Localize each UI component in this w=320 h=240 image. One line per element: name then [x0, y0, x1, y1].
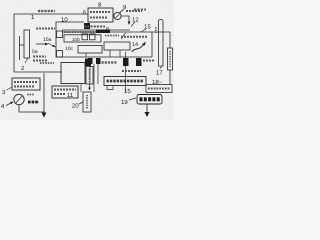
- leader 2: [25, 58, 28, 63]
- capacitor text row: [84, 25, 105, 27]
- capstan motor box 3: [12, 78, 40, 90]
- chassis name text: [38, 10, 55, 12]
- top right text: [134, 9, 146, 11]
- tape path line: [62, 31, 170, 33]
- phase box 20: [83, 92, 91, 112]
- wire down to connector: [169, 32, 171, 48]
- text above box 16: [122, 70, 141, 72]
- leader 3: [7, 87, 13, 90]
- label 12: [132, 17, 139, 24]
- relay chip D: [136, 58, 142, 66]
- terminal text: [102, 61, 118, 63]
- label 10: [61, 17, 68, 24]
- label 17: [156, 70, 163, 77]
- text above block 10b: [64, 31, 96, 33]
- label 10c: [65, 46, 74, 52]
- text beside source: [27, 94, 34, 96]
- leader 15: [141, 29, 146, 32]
- head bar: [96, 30, 110, 34]
- tape path line upper: [62, 29, 130, 31]
- bracket under box16: [107, 86, 113, 90]
- cable loop: [159, 20, 164, 67]
- tick marks: [155, 27, 157, 33]
- chip on drum: [85, 59, 91, 67]
- motor 9: [114, 12, 121, 19]
- label 8: [98, 2, 102, 9]
- leader 10a: [48, 43, 57, 48]
- wire motor to line: [122, 16, 131, 25]
- block row2 right: [104, 42, 130, 50]
- leader 4 arrow: [6, 102, 14, 106]
- leader 12: [131, 22, 135, 27]
- curve mark: [124, 52, 127, 58]
- svg-text:5a: 5a: [32, 49, 38, 55]
- servo unit box 10: [56, 22, 152, 57]
- head chip 7: [84, 23, 90, 29]
- svg-text:10a: 10a: [43, 37, 52, 43]
- label 4: [1, 103, 5, 110]
- connector rect: [168, 48, 173, 70]
- label 10a: [43, 37, 52, 43]
- drum box: [61, 63, 85, 84]
- wire middle down: [93, 64, 95, 84]
- leader 19: [129, 98, 136, 100]
- svg-text:18~: 18~: [152, 79, 163, 86]
- control box 16: [104, 77, 146, 86]
- power text: [28, 101, 39, 104]
- text row under line: [105, 35, 119, 37]
- svg-text:17: 17: [156, 70, 163, 77]
- backup box 8: [88, 8, 113, 22]
- label 2: [21, 65, 25, 72]
- port D: [57, 51, 63, 58]
- frame bottom text: [40, 62, 54, 64]
- leader 17: [160, 67, 162, 69]
- deck chassis frame 1: [14, 14, 88, 72]
- svg-text:15: 15: [124, 88, 131, 95]
- guide comb: [82, 34, 95, 40]
- terminal chip A: [88, 58, 93, 64]
- wire connector to equalizer: [169, 70, 171, 85]
- leader 20: [79, 102, 83, 104]
- block 10b: [64, 35, 101, 42]
- label 1: [31, 14, 35, 21]
- svg-text:20: 20: [72, 103, 79, 110]
- svg-text:12: 12: [132, 17, 139, 24]
- wire under block row2 c: [119, 50, 121, 57]
- label 19: [121, 99, 128, 106]
- label 11: [67, 92, 74, 99]
- output arrow: [145, 104, 150, 117]
- svg-text:14: 14: [132, 42, 138, 48]
- svg-text:6: 6: [83, 10, 86, 16]
- port P: [57, 31, 63, 38]
- svg-text:10c: 10c: [65, 46, 74, 52]
- svg-text:11: 11: [67, 92, 74, 99]
- arrow to servo: [36, 43, 49, 46]
- slash mark: [121, 33, 126, 39]
- wires to phase box: [80, 84, 82, 92]
- servo box right edge: [151, 32, 153, 57]
- label 3: [2, 89, 6, 96]
- wire chipC down: [125, 66, 127, 92]
- label 5a: [32, 49, 38, 55]
- wire source down: [19, 105, 44, 112]
- block 10c: [78, 46, 102, 54]
- node 5a upper text: [36, 28, 55, 30]
- svg-text:10b: 10b: [72, 37, 80, 42]
- equalizer box: [146, 85, 172, 93]
- relay chip C: [123, 58, 129, 66]
- sensor strip: [86, 67, 93, 85]
- connector pins: [169, 51, 171, 67]
- wire chipB down: [97, 64, 99, 84]
- label 20: [72, 103, 79, 110]
- wave arrow 14: [132, 42, 146, 53]
- signal box text: [121, 36, 147, 38]
- label 15 top: [144, 24, 151, 31]
- leader 9: [120, 10, 124, 14]
- svg-text:10: 10: [61, 17, 68, 24]
- arrow below sensor: [88, 84, 91, 91]
- wire under block row2: [85, 53, 87, 57]
- label 14: [132, 42, 138, 48]
- indicator box 19: [137, 95, 162, 105]
- tape text: [33, 56, 46, 58]
- label 18: [152, 79, 163, 86]
- power source 4: [14, 94, 24, 104]
- label 6: [83, 10, 86, 16]
- wire chipA down: [89, 64, 91, 84]
- relay text: [143, 60, 155, 62]
- ground wire arrow: [42, 73, 47, 118]
- tape reel 2: [20, 30, 30, 60]
- wire under block row2 b: [109, 50, 111, 57]
- motor name text: [126, 10, 142, 12]
- label 15 bottom: [124, 88, 131, 95]
- svg-text:19: 19: [121, 99, 128, 106]
- label 9: [123, 4, 127, 11]
- adjuster box 11: [52, 86, 78, 98]
- terminal chip B: [96, 58, 101, 64]
